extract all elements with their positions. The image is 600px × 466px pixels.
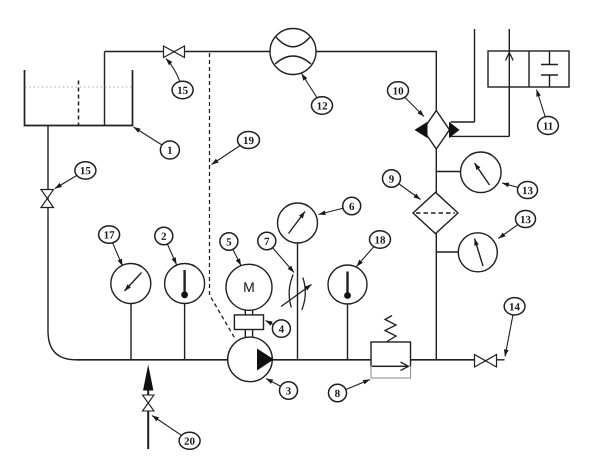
- leader 7: [267, 241, 294, 273]
- wire gauge 2 stem: [184, 304, 186, 360]
- leader 13a: [502, 183, 528, 190]
- label 12: [312, 97, 333, 114]
- leader 19: [212, 140, 249, 165]
- svg-text:3: 3: [286, 385, 292, 397]
- svg-text:20: 20: [184, 436, 196, 448]
- relief valve 8 spring: [385, 316, 396, 342]
- svg-text:8: 8: [335, 388, 341, 400]
- label 13b: [516, 211, 536, 228]
- valve 15 left (on drain pipe): [41, 190, 54, 208]
- label 17: [99, 226, 120, 243]
- thermometer gauge 2: [165, 264, 205, 304]
- label 15a: [172, 81, 193, 98]
- label 4: [272, 320, 290, 337]
- leader 10: [398, 91, 424, 117]
- relief valve 8 arrow: [372, 362, 409, 371]
- leader 13b: [499, 219, 526, 239]
- svg-text:2: 2: [161, 231, 167, 243]
- svg-text:12: 12: [317, 101, 329, 113]
- leader 2: [164, 236, 177, 265]
- pressure gauge 17: [111, 264, 151, 304]
- wire motor shaft lower: [245, 330, 252, 339]
- filter 9: [413, 192, 458, 233]
- svg-text:13: 13: [520, 214, 532, 226]
- label texts: [80, 85, 553, 448]
- svg-text:1: 1: [167, 145, 173, 157]
- label 2: [155, 227, 173, 244]
- valve 11 up arrowhead: [506, 53, 514, 61]
- wire gauge 13a connector: [436, 171, 461, 173]
- wire through valve 11: [508, 29, 510, 136]
- leader 4: [266, 321, 282, 329]
- label 6: [343, 197, 361, 214]
- valve 14: [475, 355, 497, 368]
- leader 15b: [55, 170, 86, 188]
- leader 14: [505, 306, 515, 356]
- leader 15a: [166, 59, 183, 91]
- valve unit 11 body: [488, 51, 569, 87]
- svg-text:5: 5: [226, 236, 232, 248]
- coupling 4: [234, 315, 263, 330]
- label 14: [504, 298, 525, 315]
- wire cooler to line through valve 11: [451, 88, 510, 136]
- svg-text:13: 13: [522, 185, 534, 197]
- wire top pipe to flow meter and down to cooler: [105, 52, 437, 111]
- thermometer gauge 18: [328, 265, 367, 304]
- svg-text:9: 9: [389, 174, 395, 186]
- wire tank drain down left side with curve: [48, 126, 76, 360]
- tank 1: [25, 70, 133, 126]
- label 18: [370, 231, 391, 248]
- valve 15 top (on pipe to tank): [164, 46, 185, 58]
- tank liquid level dotted line: [25, 86, 132, 88]
- label 20: [179, 432, 200, 449]
- svg-text:M: M: [243, 279, 255, 295]
- svg-text:18: 18: [374, 235, 386, 247]
- svg-text:17: 17: [104, 229, 116, 241]
- leader 5: [229, 242, 241, 266]
- wire cooler to upper right vertical: [451, 29, 475, 122]
- label 19: [238, 132, 260, 149]
- label 3: [280, 382, 298, 399]
- label 8: [329, 384, 347, 401]
- leader 6: [319, 206, 352, 215]
- label 1: [160, 141, 179, 159]
- pressure gauge 13b: [458, 233, 497, 272]
- leader 1: [134, 127, 170, 150]
- svg-text:15: 15: [80, 165, 92, 177]
- filter 9 dashed element: [416, 212, 455, 214]
- leader 11: [537, 90, 549, 126]
- label 11: [538, 117, 559, 135]
- leader 8: [338, 380, 371, 394]
- flow meter 12: [270, 29, 316, 75]
- svg-text:6: 6: [349, 201, 355, 213]
- svg-text:19: 19: [243, 135, 255, 147]
- label 13a: [518, 182, 538, 199]
- valve 11 capacitor symbol: [541, 51, 558, 87]
- leader lines: [55, 59, 548, 441]
- tank inner dashed line: [78, 81, 80, 126]
- leader 18: [357, 240, 381, 267]
- wire stub after valve 14: [497, 359, 505, 361]
- wire right vertical pipe: [435, 149, 437, 360]
- svg-text:15: 15: [177, 85, 189, 97]
- leader 12: [302, 74, 323, 106]
- cooler 10 left black triangle: [415, 122, 428, 138]
- leader 20: [152, 416, 190, 441]
- wire gauge 13b connector: [436, 251, 459, 253]
- svg-text:11: 11: [543, 121, 553, 133]
- leader 3: [266, 379, 289, 391]
- inlet arrowhead: [143, 365, 153, 391]
- wire gauge 18 stem: [347, 304, 349, 360]
- pump 3 black triangle: [257, 349, 274, 371]
- svg-text:4: 4: [279, 324, 285, 336]
- wire motor shaft upper: [245, 310, 252, 315]
- motor U5: [226, 264, 272, 310]
- wire bottom main pipe: [76, 359, 475, 361]
- label 10: [388, 82, 409, 99]
- dashed line 19: [210, 53, 236, 339]
- svg-text:10: 10: [393, 86, 405, 98]
- wire tank fill pipe: [104, 52, 106, 126]
- wire gauge 6 stem: [297, 243, 299, 360]
- pressure gauge 13a: [461, 152, 502, 193]
- wire gauge 17 stem: [130, 304, 132, 360]
- throttle valve 7: [281, 275, 312, 311]
- svg-text:7: 7: [264, 236, 270, 248]
- label 15b: [75, 162, 96, 179]
- cooler 10 right black triangle: [449, 122, 460, 138]
- label bubbles: [75, 81, 558, 449]
- leader 17: [109, 235, 122, 266]
- label 5: [220, 233, 238, 250]
- leader 9: [392, 179, 421, 200]
- relief valve 8 lower box: [371, 367, 411, 379]
- pump 3: [228, 337, 273, 382]
- label 7: [258, 232, 276, 249]
- relief valve 8 body: [371, 342, 411, 367]
- svg-text:14: 14: [509, 301, 521, 313]
- label 9: [383, 170, 401, 187]
- valve 20: [143, 395, 155, 411]
- cooler 10 diamond: [423, 111, 449, 150]
- inlet arrow shaft: [147, 386, 149, 449]
- pressure gauge 6: [278, 203, 318, 243]
